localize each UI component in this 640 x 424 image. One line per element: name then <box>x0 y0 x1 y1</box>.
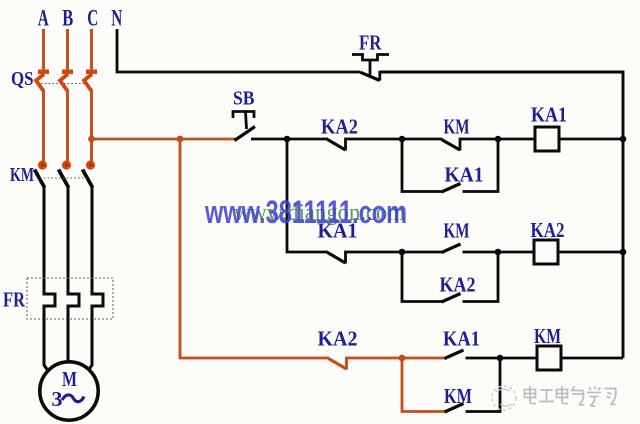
node junction rung2 branch right <box>495 249 502 256</box>
svg-text:FR: FR <box>3 288 25 312</box>
node junction orange riser <box>177 136 184 143</box>
node junction rung1 bus <box>620 136 627 143</box>
node A label <box>38 6 49 31</box>
wire phase B QS to KM <box>66 89 69 161</box>
svg-text:KA1: KA1 <box>445 163 484 187</box>
motor M circle <box>40 362 98 420</box>
watermark gray chinese text white emboss layer <box>526 387 617 407</box>
relay contact KA1 NC label rung2 <box>318 219 358 243</box>
svg-text:KA2: KA2 <box>318 327 358 351</box>
node N label <box>111 6 122 31</box>
svg-text:KA2: KA2 <box>440 273 476 297</box>
switch QS pole 3 terminal <box>86 70 97 75</box>
wire rung1 branch right riser <box>463 139 499 192</box>
node junction rung3 branch left orange <box>399 355 406 362</box>
relay contact KA2 NO label rung2 branch <box>440 273 476 297</box>
wire motor lead A <box>44 305 50 374</box>
wire rung3 branch orange <box>402 358 445 412</box>
switch QS pole 2 blade <box>60 74 68 91</box>
thermal relay FR contact actuator <box>352 55 389 78</box>
relay coil KA1 label <box>531 103 567 127</box>
relay contact KA2 NC blade rung3 orange <box>329 357 347 370</box>
wire phase C KM to heater <box>91 187 94 296</box>
svg-text:KA2: KA2 <box>531 218 565 242</box>
thermal relay FR contact label <box>359 31 382 55</box>
node C label <box>87 6 98 31</box>
svg-text:KM: KM <box>534 324 561 348</box>
svg-text:B: B <box>62 6 73 31</box>
svg-text:KA1: KA1 <box>531 103 567 127</box>
watermark green www.diangon.com <box>234 200 405 226</box>
thermal relay FR dashed box <box>27 278 113 319</box>
relay coil KA2 <box>534 240 558 264</box>
relay contact KA2 NC blade rung1 <box>328 138 346 151</box>
logo circle gray bottom right <box>492 386 516 410</box>
contactor contact KM NO blade rung3 branch <box>445 404 464 413</box>
svg-text:FR: FR <box>359 31 382 55</box>
wire rung3 branch right riser <box>466 358 501 412</box>
contactor contact KM NO blade rung2 <box>442 244 461 253</box>
relay contact KA2 NO blade rung2 branch <box>442 294 461 303</box>
wire rung1 right <box>460 138 535 141</box>
contactor KM pole 3 terminal <box>86 160 95 169</box>
thermal relay heater element phase B <box>68 294 79 306</box>
relay contact KA1 NC blade rung2 <box>328 251 346 264</box>
wire rung2 to bus <box>558 251 623 254</box>
pushbutton SB label <box>233 88 255 110</box>
node junction rung1 branch right <box>495 136 502 143</box>
pushbutton SB cap <box>233 112 254 130</box>
wire phase B KM to heater <box>67 187 70 296</box>
wire orange riser to rung 3 <box>180 139 329 358</box>
wire control feed horizontal <box>92 138 236 141</box>
watermark blue www.3811111.com <box>204 194 407 230</box>
svg-text:KM: KM <box>444 115 470 139</box>
wire phase A top <box>42 29 45 70</box>
node junction rung3 branch right <box>497 355 504 362</box>
wire rung2 mid <box>346 251 443 254</box>
thermal relay FR NC contact blade <box>361 71 380 81</box>
switch QS label <box>11 68 34 90</box>
contactor contact KM NC label rung1 <box>444 115 470 139</box>
relay contact KA1 NO blade rung1 branch <box>442 184 461 193</box>
contactor KM pole 2 terminal <box>62 160 71 169</box>
switch QS pole 2 terminal <box>62 70 73 75</box>
wire phase C QS to KM <box>90 89 93 161</box>
wire rung2 right <box>463 251 535 254</box>
wire rung1 from SB <box>251 138 328 141</box>
node B label <box>62 6 73 31</box>
wire rung2 branch right riser <box>463 252 499 302</box>
wire phase A KM to heater <box>43 187 46 296</box>
wire motor lead C <box>87 305 93 374</box>
wire phase B top <box>66 29 69 70</box>
relay contact KA1 NO blade rung3 <box>445 350 464 359</box>
wire motor lead B <box>67 305 70 364</box>
svg-text:SB: SB <box>233 88 255 110</box>
relay contact KA1 NO label rung3 <box>443 327 480 351</box>
svg-text:M: M <box>62 367 77 391</box>
switch QS pole 1 terminal <box>38 70 49 75</box>
switch QS pole 1 blade <box>36 74 44 91</box>
switch QS linkage dashed <box>41 83 88 85</box>
contactor KM pole 1 blade <box>35 170 45 188</box>
wire phase C top <box>90 29 93 70</box>
svg-text:A: A <box>38 6 49 31</box>
node junction rung2 bus <box>620 249 627 256</box>
relay contact KA2 NC label rung3 <box>318 327 358 351</box>
contactor KM pole 3 blade <box>83 170 93 188</box>
wire rung2 branch <box>402 252 442 302</box>
wire rung3 orange mid <box>347 357 446 360</box>
contactor KM label <box>10 164 34 186</box>
wire rung3 to bus <box>561 357 623 360</box>
svg-text:C: C <box>87 6 98 31</box>
svg-text:QS: QS <box>11 68 34 90</box>
contactor coil KM label <box>534 324 561 348</box>
wire rung1 mid <box>346 138 443 141</box>
contactor contact KM NO label rung3 branch <box>444 384 472 408</box>
contactor contact KM NC blade rung1 <box>442 138 461 151</box>
contactor KM linkage dashed <box>40 177 88 179</box>
wire rung2 feed riser <box>287 139 328 252</box>
svg-text:KM: KM <box>10 164 34 186</box>
svg-text:KA1: KA1 <box>443 327 480 351</box>
thermal relay heater element phase C <box>92 294 103 306</box>
thermal relay FR label <box>3 288 25 312</box>
node tap junction on phase C <box>88 136 95 143</box>
wire rung1 to bus <box>559 138 623 141</box>
svg-text:N: N <box>111 6 122 31</box>
wire top bus right segment and right bus <box>380 72 623 358</box>
relay contact KA1 NO label rung1 branch <box>445 163 484 187</box>
watermark gray chinese text dian gong dian qi xue xi <box>525 386 616 406</box>
wire rung1 branch <box>402 139 442 192</box>
wire rung3 right <box>466 357 538 360</box>
node junction rung2 feed <box>284 136 291 143</box>
node junction rung1 branch left <box>399 136 406 143</box>
contactor contact KM NO label rung2 <box>444 219 470 243</box>
thermal relay heater element phase A <box>44 294 55 306</box>
motor M letter <box>62 367 77 391</box>
pushbutton SB NO blade <box>235 127 256 141</box>
relay coil KA2 label <box>531 218 565 242</box>
contactor coil KM <box>537 346 561 370</box>
switch QS pole 3 blade <box>84 74 92 91</box>
svg-text:KM: KM <box>444 219 470 243</box>
contactor KM pole 1 terminal <box>38 160 47 169</box>
relay contact KA2 NC label rung1 <box>321 115 358 139</box>
node junction rung2 branch left <box>399 249 406 256</box>
relay coil KA1 <box>535 127 559 151</box>
wire phase A QS to KM <box>42 89 45 161</box>
svg-text:www.3811111.com: www.3811111.com <box>204 194 407 230</box>
contactor KM pole 2 blade <box>59 170 69 188</box>
wire N down and top bus left segment <box>117 29 361 72</box>
motor 3 phase mark <box>52 387 85 411</box>
svg-text:KA2: KA2 <box>321 115 358 139</box>
